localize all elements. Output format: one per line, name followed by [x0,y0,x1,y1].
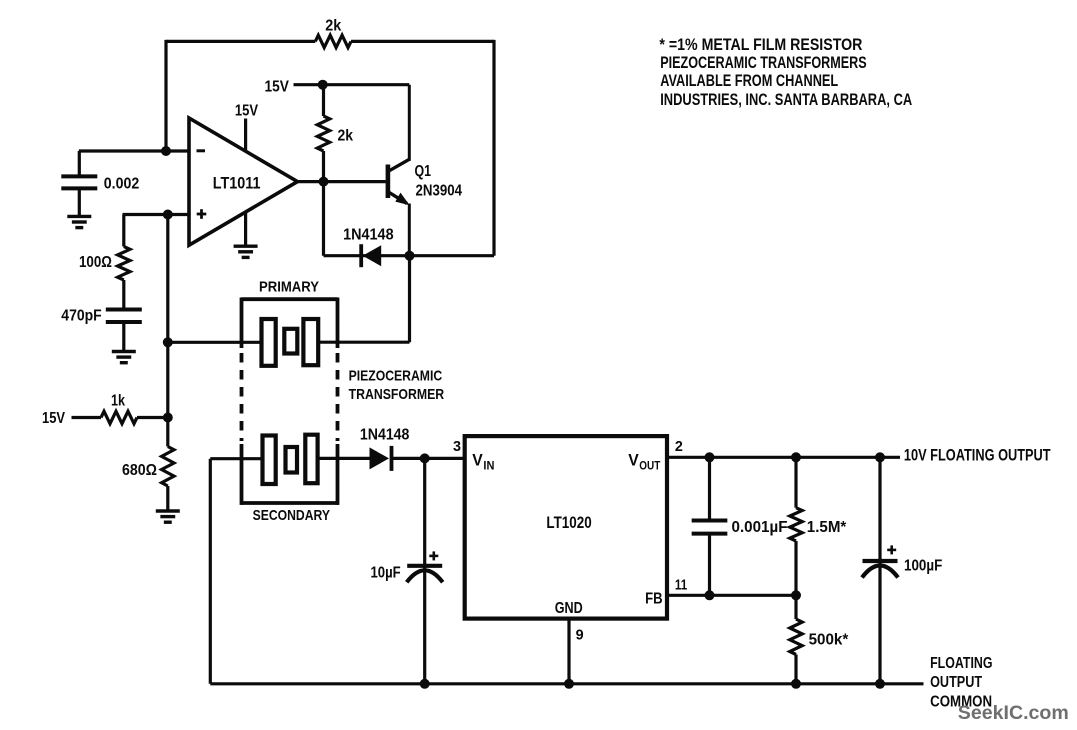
transistor Q1 emitter [387,191,410,256]
wire feedback left vertical [164,40,167,151]
wire R7 bottom stub [794,655,797,684]
svg-text:INDUSTRIES, INC. SANTA BARBARA: INDUSTRIES, INC. SANTA BARBARA, CA [660,90,912,109]
wire C4 top stub [708,457,711,520]
wire op-amp output [298,180,386,183]
label U2 Vout [628,451,661,473]
svg-text:Q1: Q1 [415,163,432,180]
wire common rail [210,682,923,685]
label C2 470pF [61,308,102,325]
wire GND pin [567,619,570,684]
svg-text:1N4148: 1N4148 [360,427,410,444]
label C5 100uF [904,558,942,575]
svg-text:15V: 15V [235,102,258,119]
label U1 LT1011 [213,174,261,193]
capacitor C1 0.002 [61,176,97,188]
resistor R4 1k [101,411,137,423]
wire C3 bottom stub [423,566,426,684]
regulator U2 LT1020 box [465,436,667,618]
note text block [659,35,912,109]
ground G2 (C2) [112,352,136,363]
label D2 1N4148 [360,427,410,444]
svg-text:680Ω: 680Ω [122,462,157,479]
svg-text:2N3904: 2N3904 [416,183,463,200]
label C1 0.002 [104,176,140,193]
wire secondary right to D2 [318,457,370,460]
wire inverting input [79,149,189,152]
transistor Q1 base bar [386,165,391,199]
label R6 1.5M* [807,519,847,536]
wire C2 bottom stub [122,322,125,352]
wire U1 ground stub [244,212,247,246]
wire 15V to R4 [72,416,102,419]
resistor R2 100ohm [118,247,130,281]
svg-text:1.5M*: 1.5M* [807,519,847,536]
label R4 1k [111,393,125,410]
node rail junction [318,80,328,90]
svg-text:V: V [628,451,639,470]
diode D1 1N4148 [361,244,381,267]
svg-text:LT1011: LT1011 [213,174,261,193]
node rail junction R7 [791,679,801,689]
node Vout junction C4 [705,452,715,462]
svg-text:FB: FB [645,591,663,608]
svg-text:3: 3 [453,438,461,455]
svg-text:2: 2 [675,438,683,455]
ground G1 (C1) [67,216,91,227]
diode D2 1N4148 (rectifier) [370,446,392,471]
wire non-inverting input [123,213,190,216]
C5 plus sign [887,545,896,554]
label R7 500k* [809,632,849,649]
svg-text:0.001µF: 0.001µF [732,519,788,536]
node output junction [319,177,329,187]
svg-text:OUT: OUT [639,459,661,473]
capacitor C2 470pF [106,310,142,323]
transformer T1 outline box [242,298,339,505]
label U2 Vin [472,451,494,473]
svg-text:2k: 2k [325,18,341,35]
op-amp U1 LT1011 triangle [189,118,298,245]
wire R3 bottom stub [322,151,325,182]
wire R7 top stub [794,595,797,619]
wire C5 top stub [878,457,881,561]
label U1 15V supply [235,102,258,119]
svg-text:10µF: 10µF [371,565,401,582]
T1 secondary center element [286,447,298,473]
label D1 1N4148 [343,227,394,244]
label C3 10uF [371,565,401,582]
capacitor C4 0.001uF [692,521,728,534]
label U2 LT1020 [546,513,591,532]
wire feedback top [166,40,494,43]
label R2 100ohm [79,254,112,271]
T1 secondary left electrode [263,436,276,485]
node 1k junction [163,413,173,423]
wire R5 bottom stub [166,486,169,511]
label 10V FLOATING OUTPUT [904,446,1051,465]
wire C1 top stub [78,151,81,176]
svg-text:SECONDARY: SECONDARY [253,507,330,524]
watermark SeekIC.com [958,702,1069,724]
svg-text:* =1% METAL FILM RESISTOR: * =1% METAL FILM RESISTOR [659,35,862,54]
svg-text:15V: 15V [265,79,290,96]
svg-text:OUTPUT: OUTPUT [930,674,982,691]
svg-text:GND: GND [555,600,583,617]
wire C5 bottom stub [878,561,881,684]
svg-text:15V: 15V [42,410,65,427]
node inverting input junction [161,146,171,156]
svg-text:PIEZOCERAMIC: PIEZOCERAMIC [349,368,443,385]
node Vin junction [420,453,430,463]
wire R6 bottom stub [794,541,797,595]
label R1 2k [325,18,341,35]
wire secondary left [210,457,262,460]
wire R6 top stub [794,457,797,507]
wire D1 [324,254,410,257]
node non-inverting input junction [163,210,173,220]
wire R4 to junction [137,416,168,419]
T1 primary left electrode [262,319,276,366]
label R5 680ohm [122,462,157,479]
wire R3 top stub [322,85,325,116]
label PIEZOCERAMIC [349,368,443,385]
svg-text:V: V [472,451,483,470]
svg-text:11: 11 [675,577,687,594]
label pin 2 [675,438,683,455]
T1 primary center element [284,329,297,354]
wire feedback bottom to diode node [410,254,495,257]
wire mid vertical to R5 [166,418,169,447]
node Vout junction R6 [791,452,801,462]
node Vout junction C5 [875,452,885,462]
label TRANSFORMER [349,386,445,403]
label Q1 [415,163,432,180]
svg-text:9: 9 [576,626,584,643]
op-amp minus sign [197,149,206,152]
resistor R7 500k [790,619,802,654]
svg-text:LT1020: LT1020 [546,513,591,532]
capacitor C3 10uF [407,566,443,583]
resistor R3 2k (pullup) [317,116,329,151]
resistor R1 2k (top feedback) [315,35,351,47]
svg-text:10V FLOATING OUTPUT: 10V FLOATING OUTPUT [904,446,1051,465]
label pin 3 [453,438,461,455]
label C4 0.001uF [732,519,788,536]
node D1/emitter junction [405,251,415,261]
wire R2 to C2 [122,280,125,310]
C3 plus sign [429,551,438,560]
transistor Q1 collector [387,85,410,173]
wire output node down to D1 [322,182,325,256]
node rail junction C5 [875,679,885,689]
wire mid vertical bus [166,215,169,418]
wire C4 bottom stub [708,534,711,596]
svg-text:SeekIC.com: SeekIC.com [958,702,1069,724]
node FB junction R6/R7 [791,590,801,600]
svg-text:PIEZOCERAMIC TRANSFORMERS: PIEZOCERAMIC TRANSFORMERS [660,53,867,72]
wire Vout rail [667,456,900,459]
label pin 9 [576,626,584,643]
svg-text:1N4148: 1N4148 [343,227,394,244]
T1 secondary right electrode [305,435,317,484]
svg-text:500k*: 500k* [809,632,849,649]
node rail junction C3 [420,679,430,689]
svg-text:FLOATING: FLOATING [930,655,992,672]
label PRIMARY [259,279,319,296]
wire feedback right vertical [492,40,495,256]
node primary feed junction [163,337,173,347]
wire 15V rail [294,83,410,86]
svg-text:PRIMARY: PRIMARY [259,279,319,296]
resistor R5 680ohm [162,447,174,487]
svg-text:100Ω: 100Ω [79,254,112,271]
label U2 FB [645,591,663,608]
label 15V (rail) [265,79,290,96]
label SECONDARY [253,507,330,524]
ground G3 (R5) [156,511,180,522]
svg-text:1k: 1k [111,393,125,410]
op-amp plus sign [197,209,207,219]
resistor R6 1.5M [790,508,802,541]
wire emitter node to primary [318,256,410,343]
label pin 11 [675,577,687,594]
ground G4 (U1) [234,246,258,257]
label U2 GND [555,600,583,617]
label R3 2k [338,128,354,145]
wire FB [667,594,796,597]
svg-text:0.002: 0.002 [104,176,140,193]
svg-text:2k: 2k [338,128,354,145]
svg-text:470pF: 470pF [61,308,102,325]
capacitor C5 100uF [862,561,898,578]
svg-text:TRANSFORMER: TRANSFORMER [349,386,445,403]
svg-text:AVAILABLE FROM CHANNEL: AVAILABLE FROM CHANNEL [660,71,838,90]
wire D2 to Vin [392,457,465,460]
svg-text:100µF: 100µF [904,558,942,575]
label Q1 2N3904 [416,183,463,200]
wire C3 top stub [423,458,426,566]
node FB junction C4 [705,590,715,600]
label FLOATING OUTPUT COMMON [930,655,992,711]
wire C1 bottom stub [78,188,81,216]
node rail junction GND pin [564,679,574,689]
wire R2 top stub [122,215,125,247]
wire primary feed [168,341,262,344]
wire secondary left drop [209,459,212,684]
wire U1 supply stub [244,119,247,151]
label 15V (bottom left) [42,410,65,427]
svg-text:IN: IN [483,459,494,473]
T1 primary right electrode [303,319,318,365]
